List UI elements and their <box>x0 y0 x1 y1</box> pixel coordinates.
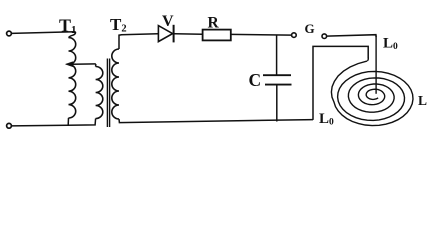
wire: T1 winding bottom hook to bus <box>67 118 69 125</box>
wire: diode to resistor <box>175 33 203 36</box>
wire: bus corner up at right <box>313 46 368 120</box>
resistor R body <box>203 30 231 41</box>
wire: arrow corner down to T2 primary <box>95 64 97 67</box>
spark gap G right terminal <box>322 34 327 39</box>
transformer T1 winding (autotransformer) <box>69 38 76 118</box>
transformer T2 core lines <box>106 59 108 128</box>
wire: resistor to spark-gap left terminal, with junction to C <box>231 33 292 36</box>
svg-text:C: C <box>249 70 262 90</box>
wire: lead curve into spiral outer <box>367 58 368 61</box>
capacitor C bottom plate <box>265 84 292 86</box>
transformer T2 secondary winding <box>112 49 119 119</box>
wire: bottom-left input to T1 bottom (left bus) <box>12 124 68 127</box>
terminal: AC input top-left <box>7 31 12 36</box>
wire: capacitor bottom lead to bus <box>276 85 278 122</box>
svg-text:L: L <box>418 93 427 108</box>
spark gap G left terminal <box>292 33 297 38</box>
variac arrow tap from T1 to T2 primary <box>72 63 96 65</box>
wire: G right terminal to L0 lead corner <box>327 35 376 37</box>
transformer T2 primary winding <box>96 67 103 119</box>
wire: T2 secondary top lead <box>119 35 122 49</box>
capacitor C top plate <box>263 74 291 76</box>
svg-text:V: V <box>162 13 174 30</box>
terminal: AC input bottom-left <box>7 123 12 128</box>
svg-text:G: G <box>305 21 315 36</box>
wire: T2 primary bottom hook to left bus <box>68 119 96 126</box>
wire: top-left input to T1 <box>12 32 76 38</box>
coil L flat spiral <box>331 61 413 126</box>
wire: capacitor top lead from junction <box>276 35 278 75</box>
diode V triangle <box>158 26 172 42</box>
diode V cathode bar <box>173 25 175 43</box>
wire: L0 lead down into spiral centre <box>375 36 377 94</box>
wire: T2 secondary bottom to right bus <box>119 119 313 123</box>
wire: T2 top to diode <box>121 34 158 35</box>
